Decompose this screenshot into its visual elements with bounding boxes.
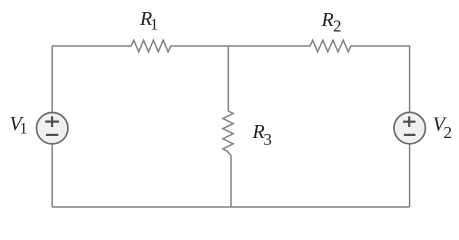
svg-text:2: 2 <box>333 17 342 36</box>
svg-text:1: 1 <box>20 121 28 138</box>
svg-text:R: R <box>321 9 334 31</box>
svg-text:2: 2 <box>444 123 453 142</box>
svg-text:3: 3 <box>263 130 272 149</box>
svg-text:1: 1 <box>150 16 158 33</box>
